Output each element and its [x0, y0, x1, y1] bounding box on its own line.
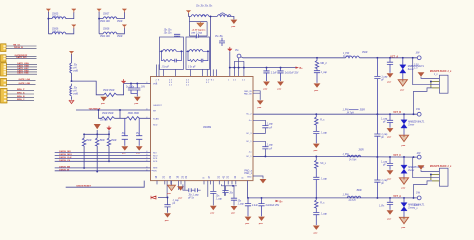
svg-text:pwr: pwr	[211, 212, 215, 214]
svg-text:pwr: pwr	[402, 187, 406, 189]
svg-text:SC_2: SC_2	[246, 113, 252, 115]
svg-text:CAL/RST: CAL/RST	[153, 104, 163, 107]
svg-text:DMOS_SDI: DMOS_SDI	[59, 151, 71, 153]
svg-text:SDI: SDI	[153, 152, 157, 154]
svg-text:GATE_HSE: GATE_HSE	[17, 72, 29, 75]
svg-text:SC_3: SC_3	[246, 133, 252, 135]
svg-text:pwB: pwB	[74, 71, 79, 73]
svg-text:DMOS_EN: DMOS_EN	[59, 167, 70, 169]
svg-text:PAD_x: PAD_x	[244, 172, 252, 175]
svg-text:J5x J5x: J5x J5x	[164, 33, 173, 35]
svg-text:SDD: SDD	[153, 125, 158, 127]
svg-text:J4.7uH: J4.7uH	[343, 56, 351, 58]
svg-text:Zener: Zener	[408, 123, 414, 126]
svg-text:SC_1: SC_1	[246, 141, 252, 143]
svg-text:J50R: J50R	[99, 140, 105, 142]
svg-text:pwr J_byp: pwr J_byp	[192, 32, 203, 35]
svg-text:J_PW: J_PW	[343, 53, 350, 55]
svg-text:pF 5x: pF 5x	[188, 197, 195, 199]
svg-text:J_cap: J_cap	[321, 214, 328, 216]
svg-text:MMBZ5V6ALT1: MMBZ5V6ALT1	[408, 65, 425, 68]
svg-text:J8008M: J8008M	[203, 127, 211, 129]
svg-text:pwr: pwr	[314, 233, 318, 235]
svg-text:Zener: Zener	[408, 68, 414, 71]
svg-text:J5005: J5005	[52, 14, 59, 16]
svg-text:GATE_BO: GATE_BO	[16, 56, 27, 59]
svg-text:J50R: J50R	[111, 140, 117, 142]
svg-text:J5008: J5008	[103, 29, 110, 31]
svg-text:pwr: pwr	[165, 220, 169, 222]
svg-text:pwr: pwr	[135, 103, 139, 105]
svg-text:pwr: pwr	[400, 89, 404, 91]
svg-text:10R-1A: 10R-1A	[52, 31, 60, 34]
svg-text:SCK: SCK	[153, 158, 158, 160]
svg-text:J4.7uH: J4.7uH	[348, 200, 356, 202]
svg-text:J_cap: J_cap	[267, 124, 274, 126]
svg-text:DMOS_IN: DMOS_IN	[59, 169, 69, 171]
svg-text:pwr: pwr	[264, 88, 268, 90]
svg-text:DMOS RESET: DMOS RESET	[77, 186, 92, 188]
svg-text:J50R: J50R	[356, 190, 362, 192]
svg-text:MR_2: MR_2	[321, 63, 328, 65]
svg-text:2x100uF 25V: 2x100uF 25V	[285, 72, 299, 74]
svg-text:J_cap: J_cap	[321, 178, 328, 180]
svg-text:pwr: pwr	[232, 26, 236, 28]
svg-text:J5006: J5006	[52, 29, 59, 31]
svg-text:pwr: pwr	[101, 103, 105, 105]
svg-text:SEN: SEN	[153, 168, 158, 170]
svg-text:SIN: SIN	[153, 171, 157, 173]
svg-text:BRA_A: BRA_A	[17, 92, 25, 95]
svg-text:J5x J5x: J5x J5x	[164, 29, 173, 31]
svg-text:J_cap: J_cap	[381, 76, 388, 78]
svg-text:2.2uF: 2.2uF	[271, 72, 277, 74]
svg-text:16V: 16V	[141, 86, 146, 88]
svg-text:2x100uF 25V: 2x100uF 25V	[266, 205, 280, 207]
svg-text:DMOS_CLK: DMOS_CLK	[59, 157, 72, 159]
svg-text:J50R: J50R	[362, 52, 368, 54]
svg-text:SDO: SDO	[153, 155, 158, 157]
svg-text:pwr: pwr	[278, 88, 282, 90]
svg-text:MMBZ5V6ALT1: MMBZ5V6ALT1	[408, 120, 425, 123]
svg-text:pwr: pwr	[314, 150, 318, 152]
svg-text:MC/GPS BLDC J_x: MC/GPS BLDC J_x	[430, 165, 452, 168]
svg-text:BRA_C: BRA_C	[17, 98, 25, 101]
svg-text:J50R: J50R	[360, 110, 366, 112]
svg-text:pwr: pwr	[245, 223, 249, 225]
svg-text:2x 100n: 2x 100n	[126, 86, 135, 88]
svg-text:pwr: pwr	[387, 179, 391, 181]
svg-text:J_cap: J_cap	[238, 204, 245, 206]
svg-text:SC_1: SC_1	[246, 156, 252, 158]
svg-text:SH: SH	[153, 111, 156, 113]
svg-text:MC/GPS BLDC J_x: MC/GPS BLDC J_x	[430, 70, 452, 73]
svg-text:J_PW: J_PW	[343, 110, 350, 112]
svg-text:SCS: SCS	[153, 161, 158, 163]
svg-text:J50R: J50R	[117, 21, 123, 23]
svg-text:pwr: pwr	[167, 193, 171, 195]
svg-text:PAD_tM: PAD_tM	[244, 93, 252, 96]
svg-text:GND: GND	[247, 177, 252, 179]
svg-text:VCT_A: VCT_A	[393, 195, 401, 198]
svg-text:DMOS_CS: DMOS_CS	[59, 160, 70, 162]
svg-text:J_cap: J_cap	[321, 132, 328, 134]
svg-text:J500 10R: J500 10R	[100, 36, 110, 38]
svg-text:J5x J5x J5x J5x: J5x J5x J5x J5x	[196, 6, 213, 8]
svg-text:MMBZ5V6ALT1: MMBZ5V6ALT1	[408, 203, 425, 206]
svg-text:J50R: J50R	[117, 36, 123, 38]
svg-text:VCT_C: VCT_C	[393, 154, 401, 157]
svg-text:J_cap: J_cap	[216, 198, 223, 200]
svg-text:J4.7uH: J4.7uH	[347, 113, 355, 115]
svg-text:J500 10R: J500 10R	[100, 21, 110, 23]
svg-text:VCT_B: VCT_B	[393, 111, 401, 114]
svg-text:VCT_A: VCT_A	[390, 55, 398, 58]
svg-text:J50R: J50R	[358, 149, 364, 151]
svg-text:J_cap: J_cap	[267, 145, 274, 147]
svg-text:J50R J50R: J50R J50R	[128, 113, 140, 115]
svg-text:J 5x pF: J 5x pF	[162, 66, 170, 68]
svg-text:BRA_P: BRA_P	[17, 88, 25, 91]
svg-text:Zener: Zener	[408, 169, 414, 172]
svg-text:DMOS_SDO: DMOS_SDO	[59, 154, 72, 156]
svg-text:pwB: pwB	[74, 94, 79, 96]
svg-text:J50R J50R: J50R J50R	[103, 90, 115, 92]
svg-text:VNB: VNB	[153, 83, 158, 85]
svg-text:J5x J5x: J5x J5x	[100, 120, 109, 122]
svg-text:GATE_LSB: GATE_LSB	[19, 82, 31, 85]
svg-text:pH: pH	[74, 68, 77, 70]
svg-text:pwr: pwr	[314, 90, 318, 92]
svg-text:pwr: pwr	[178, 198, 182, 200]
svg-text:SCAN: SCAN	[153, 117, 159, 120]
svg-text:pwr: pwr	[258, 107, 262, 109]
svg-text:J5x J_cap: J5x J_cap	[188, 194, 199, 196]
svg-text:J_cap: J_cap	[321, 72, 328, 74]
svg-text:pwr: pwr	[402, 145, 406, 147]
svg-text:pwr: pwr	[387, 136, 391, 138]
svg-text:J_cap: J_cap	[381, 162, 388, 164]
svg-text:J_Rx: J_Rx	[379, 205, 385, 207]
svg-text:10R-1A: 10R-1A	[52, 16, 60, 19]
svg-text:J50R: J50R	[86, 140, 92, 142]
svg-text:pwr: pwr	[231, 213, 235, 215]
svg-text:GATE_HSA: GATE_HSA	[17, 62, 29, 65]
svg-text:J50R J50R: J50R J50R	[102, 113, 114, 115]
svg-text:J_PW: J_PW	[343, 194, 350, 196]
svg-text:+3.3V bypass: +3.3V bypass	[192, 30, 207, 32]
svg-text:J 5x pF: J 5x pF	[188, 66, 196, 68]
svg-text:pH: pH	[74, 91, 77, 93]
svg-text:SC_x: SC_x	[320, 163, 326, 165]
svg-text:J_PW: J_PW	[343, 154, 350, 156]
svg-text:J5007: J5007	[103, 14, 110, 16]
svg-text:BRA_B: BRA_B	[17, 95, 25, 98]
svg-text:pwr: pwr	[387, 82, 391, 84]
svg-text:GATE_LSA: GATE_LSA	[19, 78, 31, 81]
svg-text:J_cap: J_cap	[381, 119, 388, 121]
svg-text:J4.7uH: J4.7uH	[349, 159, 357, 161]
svg-text:pwr: pwr	[259, 223, 263, 225]
svg-text:DRVA_B: DRVA_B	[14, 46, 23, 49]
svg-text:Zener: Zener	[408, 206, 414, 209]
svg-text:pwr: pwr	[402, 227, 406, 229]
svg-text:pwr: pwr	[387, 219, 391, 221]
svg-text:2.2uF: 2.2uF	[252, 205, 258, 207]
svg-text:J_cap: J_cap	[173, 200, 180, 202]
